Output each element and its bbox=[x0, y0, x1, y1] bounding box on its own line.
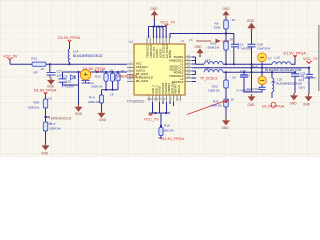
svg-text:21: 21 bbox=[181, 39, 185, 43]
svg-text:GND: GND bbox=[195, 45, 203, 49]
svg-text:D3.3V_FPGA: D3.3V_FPGA bbox=[58, 36, 81, 40]
svg-text:100K1%: 100K1% bbox=[162, 128, 174, 132]
svg-text:VCC_TV: VCC_TV bbox=[303, 57, 318, 61]
svg-text:GND: GND bbox=[41, 152, 49, 156]
svg-text:D7: D7 bbox=[268, 56, 272, 60]
svg-text:D1N: D1N bbox=[299, 86, 305, 90]
svg-text:D6: D6 bbox=[64, 74, 68, 78]
svg-text:D8: D8 bbox=[272, 80, 276, 84]
svg-text:VCC_TV: VCC_TV bbox=[144, 118, 159, 122]
svg-text:4.7uF/50V: 4.7uF/50V bbox=[238, 46, 253, 50]
svg-text:MODE: MODE bbox=[168, 50, 172, 58]
svg-text:GND: GND bbox=[247, 19, 255, 23]
svg-text:FB_LDO2: FB_LDO2 bbox=[136, 79, 149, 83]
svg-text:R23: R23 bbox=[212, 85, 218, 89]
svg-text:R34: R34 bbox=[34, 100, 40, 104]
svg-text:L10: L10 bbox=[275, 56, 280, 60]
svg-text:GND: GND bbox=[290, 102, 298, 106]
svg-text:300K1%: 300K1% bbox=[91, 84, 103, 88]
svg-text:GND: GND bbox=[99, 118, 107, 122]
svg-text:R17: R17 bbox=[50, 122, 56, 126]
svg-text:10uF/10V: 10uF/10V bbox=[257, 46, 271, 50]
svg-text:R11: R11 bbox=[32, 56, 38, 60]
svg-text:D1.8V_FPGA: D1.8V_FPGA bbox=[34, 89, 57, 93]
svg-text:GND: GND bbox=[150, 7, 158, 11]
svg-text:150K: 150K bbox=[214, 25, 222, 29]
svg-text:5mA: 5mA bbox=[252, 64, 258, 68]
svg-text:GND: GND bbox=[75, 112, 83, 116]
svg-text:10uF/10V: 10uF/10V bbox=[247, 87, 261, 91]
svg-text:D1.2V_FPGA: D1.2V_FPGA bbox=[262, 105, 285, 109]
svg-text:D3.3V_FPGA: D3.3V_FPGA bbox=[162, 137, 185, 141]
svg-text:C29: C29 bbox=[66, 79, 72, 83]
svg-text:BLM18HE601SN1D: BLM18HE601SN1D bbox=[73, 54, 103, 58]
svg-text:THRESHOLD: THRESHOLD bbox=[49, 116, 72, 120]
svg-text:GND: GND bbox=[303, 103, 311, 107]
svg-text:uF/50V: uF/50V bbox=[240, 74, 251, 78]
svg-text:R14: R14 bbox=[89, 95, 95, 99]
svg-text:700K1%: 700K1% bbox=[28, 105, 40, 109]
svg-text:VCC_5V: VCC_5V bbox=[3, 54, 18, 58]
svg-text:100K1%: 100K1% bbox=[210, 103, 222, 107]
svg-text:R12: R12 bbox=[95, 74, 101, 78]
svg-text:4.7u/10V: 4.7u/10V bbox=[62, 84, 75, 88]
svg-text:20: 20 bbox=[189, 38, 193, 42]
svg-text:C33: C33 bbox=[240, 69, 246, 73]
svg-text:L18: L18 bbox=[205, 66, 210, 70]
svg-text:THRESHOLD: THRESHOLD bbox=[115, 74, 138, 78]
svg-text:100K1%: 100K1% bbox=[49, 126, 61, 130]
svg-text:PBOUT: PBOUT bbox=[177, 84, 181, 93]
svg-text:680K1%: 680K1% bbox=[208, 45, 220, 49]
svg-text:100K1%: 100K1% bbox=[208, 89, 220, 93]
svg-text:GND: GND bbox=[223, 7, 231, 11]
svg-text:10uF/25V: 10uF/25V bbox=[303, 76, 317, 80]
svg-text:GND: GND bbox=[248, 103, 256, 107]
svg-text:L14: L14 bbox=[73, 50, 78, 54]
svg-text:BLM18HE152SN1D/1206: BLM18HE152SN1D/1206 bbox=[265, 68, 302, 72]
svg-text:VCC_TV: VCC_TV bbox=[161, 21, 176, 25]
svg-text:TP_DCDC2: TP_DCDC2 bbox=[200, 77, 218, 81]
svg-text:200K1%: 200K1% bbox=[88, 100, 100, 104]
svg-text:U4: U4 bbox=[129, 40, 133, 44]
svg-text:TPS65032: TPS65032 bbox=[127, 100, 145, 104]
svg-text:L17: L17 bbox=[205, 58, 210, 62]
svg-text:GND: GND bbox=[222, 126, 230, 130]
svg-text:BLM18HE152SN1D: BLM18HE152SN1D bbox=[277, 81, 303, 85]
svg-text:R18: R18 bbox=[164, 123, 170, 127]
svg-text:D1.5V_FPGA: D1.5V_FPGA bbox=[284, 51, 307, 55]
svg-text:1nF: 1nF bbox=[57, 73, 62, 77]
